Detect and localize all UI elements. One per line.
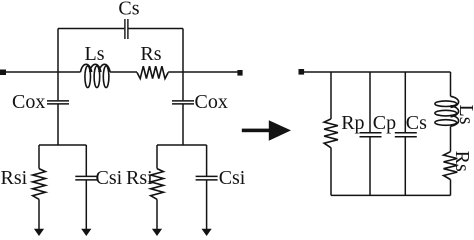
svg-text:Cp: Cp <box>373 112 396 134</box>
svg-text:Ls: Ls <box>455 105 474 125</box>
svg-text:Cs: Cs <box>406 112 427 134</box>
svg-text:Cox: Cox <box>195 91 228 113</box>
svg-text:Csi: Csi <box>96 167 123 189</box>
svg-text:Rsi: Rsi <box>1 167 28 189</box>
svg-text:Rs: Rs <box>140 43 161 65</box>
svg-text:Csi: Csi <box>219 167 246 189</box>
svg-text:Cox: Cox <box>12 91 45 113</box>
svg-text:Cs: Cs <box>118 0 139 19</box>
svg-text:Rs: Rs <box>451 151 473 172</box>
svg-text:Ls: Ls <box>85 43 105 65</box>
svg-text:Rp: Rp <box>341 112 364 134</box>
svg-text:Rsi: Rsi <box>126 167 153 189</box>
